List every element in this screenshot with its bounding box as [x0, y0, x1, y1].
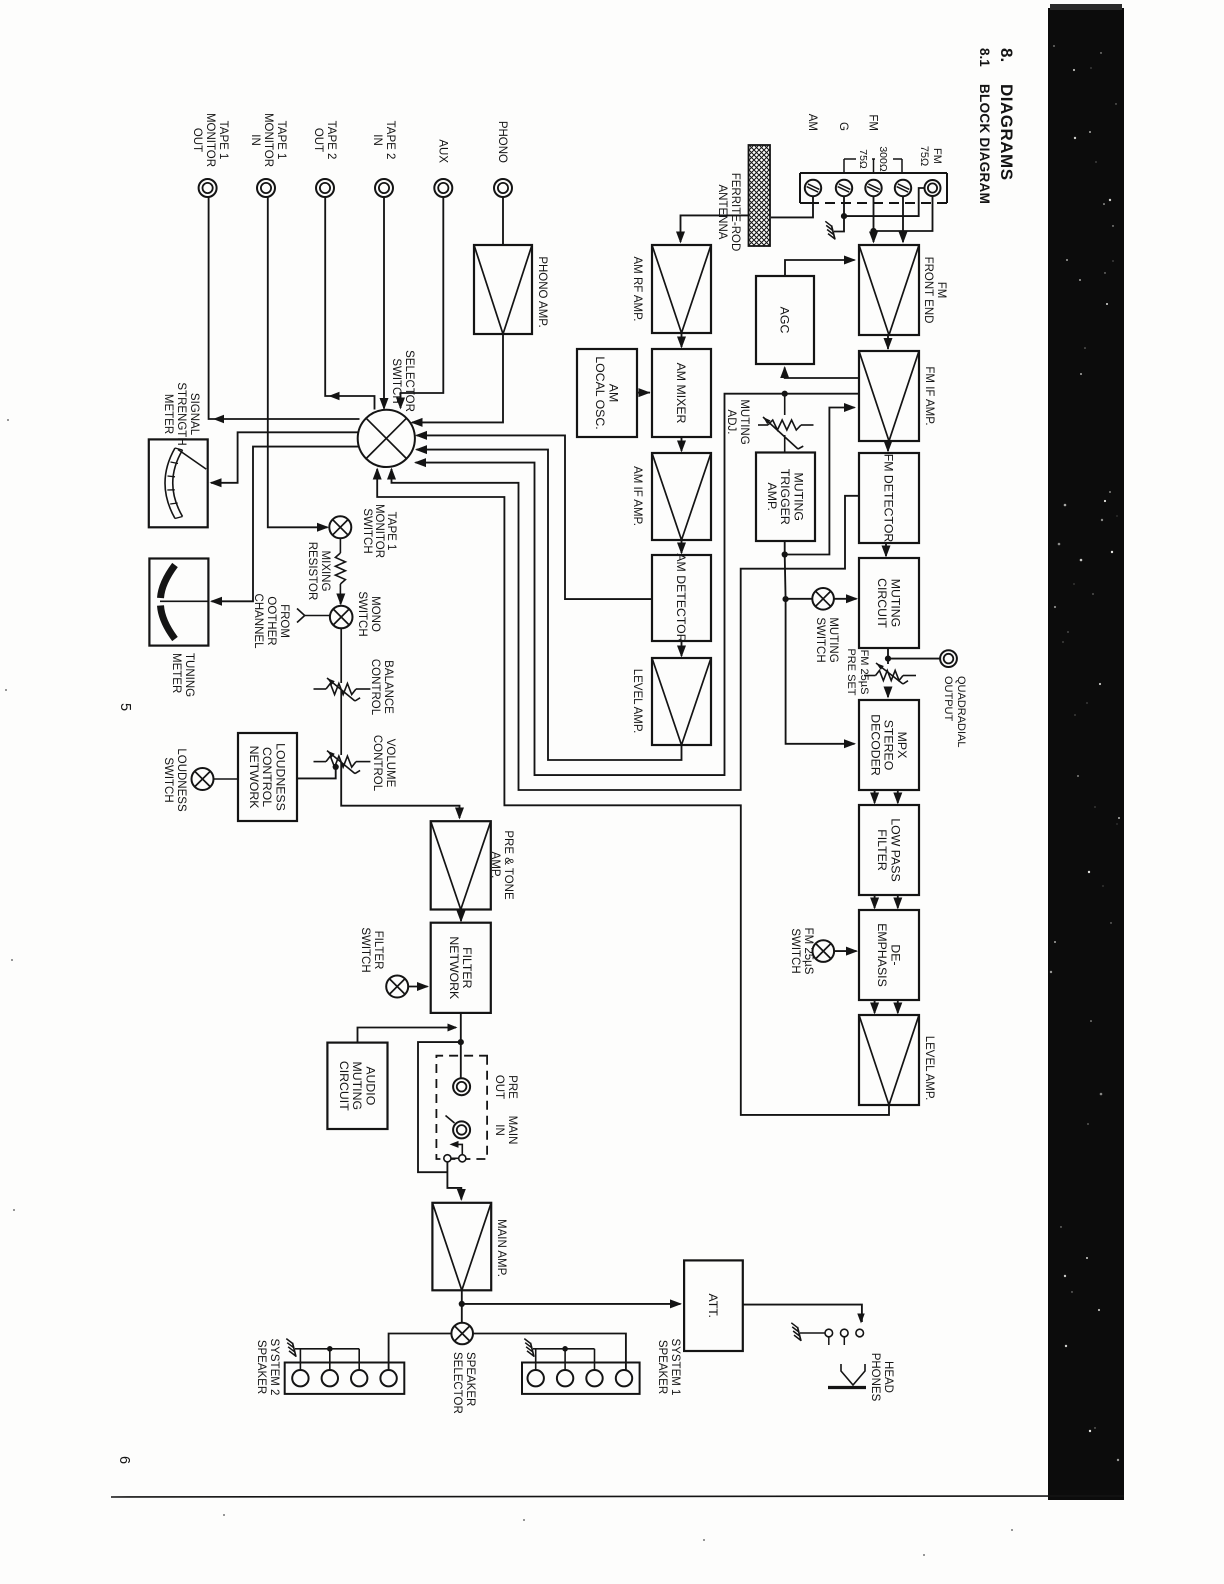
U-link terminal 2: [459, 1155, 466, 1162]
svg-text:ANTENNA: ANTENNA: [716, 185, 728, 240]
terminal G: [836, 180, 852, 196]
svg-text:PRE: PRE: [506, 1075, 518, 1099]
block MPX STEREO DECODER: [859, 700, 919, 790]
wire AM detector to level amp: [681, 641, 683, 656]
block signal strength meter: [149, 439, 208, 527]
wire muting switch to muting circuit: [834, 598, 857, 600]
jack PRE OUT: [453, 1078, 470, 1095]
switch MONO: [330, 606, 353, 629]
wire to ATT: [462, 1303, 681, 1305]
wire de-emphasis to level amp (upper): [897, 1000, 899, 1013]
svg-text:AM IF AMP.: AM IF AMP.: [631, 466, 643, 526]
wire selector to signal strength meter: [211, 432, 358, 483]
jack QUADRADIAL OUTPUT: [940, 650, 957, 667]
svg-text:MONITOR: MONITOR: [373, 504, 385, 558]
ground chassis (antenna): [832, 226, 836, 240]
block ATT: [684, 1260, 743, 1351]
svg-text:SIGNAL: SIGNAL: [188, 393, 200, 436]
svg-text:AGC: AGC: [778, 307, 792, 334]
svg-text:DIAGRAMS: DIAGRAMS: [997, 84, 1016, 181]
svg-text:VOLUME: VOLUME: [384, 739, 396, 788]
svg-text:MUTING: MUTING: [888, 579, 902, 628]
svg-text:75Ω: 75Ω: [857, 149, 869, 169]
wire U-link terminal1 to main amp: [447, 1162, 461, 1200]
block AM DETECTOR: [652, 555, 711, 641]
wire dot1 to dot2: [784, 555, 787, 600]
svg-text:HEAD: HEAD: [882, 1361, 894, 1393]
svg-text:SWITCH: SWITCH: [356, 591, 368, 636]
svg-text:DECODER: DECODER: [868, 714, 882, 776]
wire FM IF amp to AGC: [785, 368, 859, 379]
amp LEVEL AMP (AM): [652, 658, 711, 745]
svg-text:AM: AM: [806, 114, 818, 131]
wire pre tone to filter network: [460, 910, 462, 922]
junction dot quadradial: [885, 656, 891, 662]
junction dot muting bus 2: [783, 596, 789, 602]
specks: [523, 1519, 525, 1521]
wire FM IF amp tap bus to selector: [416, 394, 860, 775]
wire muting circuit to MPX with FM preset: [887, 648, 889, 664]
svg-text:PHONO: PHONO: [496, 121, 508, 163]
wire AM detector direct bus to selector: [417, 435, 653, 599]
jack TAPE 2 IN: [375, 179, 393, 197]
svg-text:LOUDNESS: LOUDNESS: [175, 748, 187, 812]
amp AM IF AMP: [652, 453, 711, 540]
svg-text:SELECTOR: SELECTOR: [403, 350, 415, 412]
svg-text:METER: METER: [170, 653, 182, 693]
wire headphone ground: [800, 1332, 825, 1334]
block FILTER NETWORK: [431, 923, 491, 1013]
antenna terminal strip: [946, 173, 948, 203]
amp PRE & TONE AMP: [431, 821, 491, 909]
ground chassis system 2: [293, 1343, 297, 1357]
svg-text:CIRCUIT: CIRCUIT: [337, 1061, 351, 1111]
wire selector to TAPE 2 OUT: [329, 392, 340, 401]
terminal AM: [805, 180, 821, 196]
svg-text:AUDIO: AUDIO: [363, 1066, 377, 1105]
junction dot system1: [562, 1346, 568, 1352]
svg-text:PRE & TONE: PRE & TONE: [502, 830, 514, 900]
wire phono jack to phono amp: [502, 196, 504, 245]
svg-text:NETWORK: NETWORK: [447, 936, 461, 1000]
svg-text:LEVEL AMP.: LEVEL AMP.: [923, 1036, 935, 1101]
antenna impedance bracket: [893, 158, 902, 160]
svg-text:METER: METER: [162, 394, 174, 434]
wire FM level amp output bus to selector: [377, 469, 889, 1115]
pot BALANCE CONTROL: [326, 684, 356, 695]
wire FM 25uS switch to de-emphasis: [834, 950, 856, 952]
svg-text:MUTING: MUTING: [350, 1062, 364, 1111]
wire FM IF amp to FM detector: [887, 441, 889, 451]
wire FM75 jack shield tap: [844, 188, 924, 216]
svg-text:SYSTEM 2: SYSTEM 2: [268, 1339, 280, 1396]
terminal FM: [865, 180, 881, 196]
junction dot pre out line: [458, 1039, 464, 1045]
wire main amp output: [461, 1290, 463, 1322]
svg-text:EMPHASIS: EMPHASIS: [875, 923, 889, 987]
svg-text:FM 25µS: FM 25µS: [858, 650, 870, 695]
svg-text:LOCAL OSC.: LOCAL OSC.: [593, 356, 607, 429]
svg-text:TUNING: TUNING: [183, 653, 195, 697]
wire speaker selector to system 2: [389, 1334, 452, 1371]
wire TAPE 1 MONITOR IN to monitor switch: [268, 196, 328, 527]
jack FM 75ohm: [925, 180, 941, 196]
jack PHONO: [494, 179, 512, 197]
amp LEVEL AMP (FM): [859, 1015, 919, 1105]
switch TAPE 1 MONITOR: [329, 516, 351, 538]
wire U-link to main in: [452, 1144, 462, 1154]
wire mixing resistor to mono switch: [339, 584, 341, 604]
svg-text:SWITCH: SWITCH: [814, 617, 826, 662]
svg-text:G: G: [837, 122, 849, 131]
wire LPF to de-emphasis (lower): [874, 895, 876, 908]
terminal 300ohm: [895, 180, 911, 196]
block DE-EMPHASIS: [859, 910, 919, 1000]
jack MAIN IN: [453, 1121, 470, 1138]
svg-text:SPEAKER: SPEAKER: [255, 1340, 267, 1394]
svg-text:OUT: OUT: [191, 128, 203, 152]
switch SPEAKER SELECTOR: [451, 1323, 473, 1345]
jack TAPE 1 MONITOR IN: [257, 179, 275, 197]
svg-text:FILTER: FILTER: [875, 829, 889, 871]
pot VOLUME CONTROL: [326, 756, 356, 767]
block MUTING CIRCUIT: [859, 558, 919, 648]
svg-text:LOUDNESS: LOUDNESS: [273, 743, 287, 811]
ground chassis system 1: [531, 1343, 535, 1357]
svg-text:CHANNEL: CHANNEL: [252, 594, 264, 650]
svg-text:FM IF AMP.: FM IF AMP.: [923, 366, 935, 425]
switch LOUDNESS: [192, 768, 214, 790]
switch FM 25uS: [813, 940, 835, 962]
wire AM mixer to AM IF amp: [681, 437, 683, 451]
svg-text:CONTROL: CONTROL: [369, 659, 381, 716]
wire filter network to pre out: [460, 1013, 462, 1078]
wire FM front end to FM IF amp: [887, 335, 889, 349]
jack TAPE 1 MONITOR OUT: [199, 179, 217, 197]
wire audio muting circuit to line: [358, 1028, 457, 1043]
wire de-emphasis to level amp (lower): [874, 1000, 876, 1013]
svg-text:SWITCH: SWITCH: [162, 757, 174, 802]
svg-text:TAPE 1: TAPE 1: [217, 121, 229, 160]
wire 300ohm terminal to FM front end: [902, 196, 904, 242]
svg-text:TAPE 1: TAPE 1: [275, 121, 287, 160]
jack TAPE 2 OUT: [316, 179, 334, 197]
svg-text:OOTHER: OOTHER: [265, 596, 277, 645]
svg-text:MPX: MPX: [895, 732, 909, 759]
block tuning meter: [149, 559, 208, 646]
junction dot FM IF tap: [782, 391, 788, 397]
wire FM terminal to FM front end: [873, 196, 875, 242]
svg-text:PHONO AMP.: PHONO AMP.: [536, 256, 548, 327]
svg-text:AUX: AUX: [436, 139, 448, 163]
svg-text:MONITOR: MONITOR: [262, 113, 274, 167]
dashed rear panel box: [436, 1056, 487, 1159]
wire phono amp to selector: [412, 334, 503, 422]
junction dot speaker line: [459, 1301, 465, 1307]
svg-text:ADJ.: ADJ.: [725, 410, 737, 435]
svg-text:MUTING: MUTING: [791, 473, 805, 522]
wire AM terminal to ferrite rod: [771, 196, 813, 217]
wire AUX to selector: [401, 196, 444, 408]
wire G terminal to ground: [834, 196, 844, 231]
wire TAPE 2 IN to selector: [383, 196, 385, 408]
amp FM IF AMP: [859, 351, 919, 441]
black scan bar: [1048, 8, 1124, 1500]
audio muting junction arrow: [448, 1024, 458, 1032]
svg-text:NETWORK: NETWORK: [247, 746, 261, 810]
svg-text:LEVEL AMP.: LEVEL AMP.: [631, 669, 643, 734]
svg-text:FROM: FROM: [278, 604, 290, 638]
svg-text:BALANCE: BALANCE: [382, 660, 394, 714]
svg-text:FM: FM: [867, 114, 879, 131]
wire muting switch to bus dot: [786, 598, 813, 600]
svg-text:300Ω: 300Ω: [877, 146, 889, 172]
svg-text:MONO: MONO: [369, 596, 381, 632]
wire FM detector to muting circuit: [885, 543, 887, 556]
svg-text:75Ω: 75Ω: [918, 146, 930, 166]
svg-text:8.: 8.: [997, 48, 1016, 62]
svg-text:SPEAKER: SPEAKER: [656, 1340, 668, 1394]
svg-text:SELECTOR: SELECTOR: [451, 1352, 463, 1414]
wire monitor switch to mixing resistor: [339, 538, 341, 553]
wire AM IF amp to AM detector: [681, 540, 683, 553]
U-link terminal 1: [444, 1155, 451, 1162]
wire muting adj branch: [784, 394, 786, 415]
svg-text:CONTROL: CONTROL: [371, 735, 383, 792]
svg-text:IN: IN: [249, 134, 261, 146]
svg-text:MUTING: MUTING: [738, 399, 750, 444]
wire volume tap to loudness network: [298, 767, 336, 779]
amp PHONO AMP: [474, 245, 532, 334]
svg-text:FILTER: FILTER: [460, 947, 474, 989]
svg-text:MIXING: MIXING: [319, 551, 331, 592]
tuning meter needle: [160, 600, 208, 602]
svg-text:STEREO: STEREO: [882, 720, 896, 771]
svg-text:PRE SET: PRE SET: [845, 648, 857, 695]
wire ferrite rod to AM RF amp: [681, 215, 749, 242]
svg-text:FM DETECTOR: FM DETECTOR: [882, 454, 896, 543]
svg-text:RESISTOR: RESISTOR: [306, 542, 318, 601]
svg-text:OUT: OUT: [493, 1075, 505, 1099]
switch FILTER: [386, 976, 408, 998]
wire AGC to FM front end: [785, 260, 855, 276]
wire dot2 to MPX input: [786, 599, 855, 744]
system 2 ground bus: [295, 1348, 359, 1350]
wire filter switch to filter network: [408, 986, 427, 988]
svg-text:BLOCK DIAGRAM: BLOCK DIAGRAM: [977, 84, 992, 204]
svg-text:OUTPUT: OUTPUT: [942, 676, 954, 722]
wire selector to TAPE 1 MONITOR OUT: [213, 415, 224, 424]
svg-text:IN: IN: [371, 134, 383, 146]
wire to quadradial output: [888, 658, 940, 660]
wire ATT to headphone jack: [743, 1305, 862, 1322]
block FM DETECTOR: [859, 453, 919, 543]
amp AM RF AMP: [652, 245, 711, 333]
svg-text:FM 25µS: FM 25µS: [802, 928, 814, 975]
svg-text:MAIN: MAIN: [506, 1116, 518, 1145]
svg-text:SWITCH: SWITCH: [359, 927, 371, 972]
wire dot1 to FM IF amp input: [785, 408, 855, 555]
svg-text:DE-: DE-: [888, 944, 902, 965]
page edge line: [111, 1496, 1124, 1497]
U-link bar: [451, 1157, 459, 1159]
selector switch: [358, 410, 415, 467]
block MUTING TRIGGER AMP: [756, 453, 815, 542]
svg-text:STRENGTH: STRENGTH: [175, 382, 187, 445]
svg-text:SYSTEM 1: SYSTEM 1: [669, 1339, 681, 1396]
wire FM detector direct output bus to selector: [392, 469, 860, 790]
headphone plug: [841, 1364, 865, 1385]
svg-text:AMP.: AMP.: [765, 483, 779, 511]
svg-text:FM: FM: [935, 282, 947, 299]
svg-text:LOW PASS: LOW PASS: [888, 818, 902, 881]
svg-text:AM DETECTOR: AM DETECTOR: [674, 553, 688, 642]
svg-text:QUADRADIAL: QUADRADIAL: [955, 676, 967, 748]
wire mono switch to balance control: [340, 628, 342, 683]
wire AM local osc to AM mixer: [637, 392, 650, 394]
svg-text:8.1: 8.1: [977, 48, 992, 67]
pot MUTING ADJ: [768, 420, 801, 430]
svg-text:FRONT END: FRONT END: [922, 257, 934, 324]
wire FM75 jack center to FM line: [874, 196, 933, 231]
svg-text:FERRITE-ROD: FERRITE-ROD: [729, 173, 741, 252]
wire speaker selector to system 1: [473, 1334, 626, 1371]
svg-text:TAPE 1: TAPE 1: [385, 512, 397, 551]
svg-text:AMP.: AMP.: [489, 852, 501, 879]
svg-text:SWITCH: SWITCH: [361, 508, 373, 553]
system 1 ground bus: [533, 1348, 595, 1350]
amp MAIN AMP: [432, 1203, 491, 1291]
pot FM 25uS PRE SET: [876, 671, 904, 681]
junction dot system2: [327, 1346, 333, 1352]
wire loudness switch to network: [214, 778, 239, 780]
speaker strip SYSTEM 1: [522, 1363, 640, 1394]
junction dot volume tap: [333, 764, 339, 770]
signal meter scale arc: [165, 448, 175, 519]
headphone jack contacts: [856, 1329, 864, 1337]
svg-text:SPEAKER: SPEAKER: [464, 1352, 476, 1406]
wire AM RF amp to AM mixer: [681, 333, 683, 347]
jack AUX: [434, 179, 452, 197]
svg-text:AM MIXER: AM MIXER: [674, 363, 688, 424]
wire selector to tuning meter: [212, 447, 359, 602]
junction dot G line: [841, 213, 847, 219]
svg-text:TRIGGER: TRIGGER: [778, 469, 792, 525]
wire MPX to LPF (upper): [897, 790, 899, 803]
svg-text:CIRCUIT: CIRCUIT: [875, 578, 889, 628]
switch MUTING: [812, 588, 834, 610]
svg-text:IN: IN: [493, 1124, 505, 1136]
svg-text:SWITCH: SWITCH: [789, 928, 801, 973]
wire MPX to LPF (lower): [874, 790, 876, 803]
block LOW PASS FILTER: [859, 805, 919, 895]
wire balance to volume control: [340, 689, 342, 755]
junction dot FM line: [870, 228, 876, 234]
svg-text:AM: AM: [606, 384, 620, 402]
svg-text:FILTER: FILTER: [372, 931, 384, 970]
wire U-link loop from dot: [418, 1042, 461, 1172]
main in contact tick: [446, 1116, 455, 1124]
wire muting trigger amp output: [784, 541, 786, 555]
svg-text:6: 6: [116, 1456, 132, 1464]
ground chassis headphones: [798, 1327, 802, 1341]
wire AM level amp output bus to selector: [417, 450, 682, 760]
amp FM FRONT END: [859, 245, 919, 335]
signal meter needle: [178, 450, 206, 470]
wire LPF to de-emphasis (upper): [897, 895, 899, 908]
block AGC: [756, 276, 814, 364]
svg-text:TAPE 2: TAPE 2: [325, 121, 337, 160]
block LOUDNESS CONTROL NETWORK: [238, 733, 297, 821]
mixing resistor: [335, 553, 345, 584]
svg-text:TAPE 2: TAPE 2: [384, 121, 396, 160]
junction dot muting bus 1: [782, 551, 788, 557]
svg-text:MONITOR: MONITOR: [204, 113, 216, 167]
svg-text:MUTING: MUTING: [827, 617, 839, 662]
svg-text:5: 5: [117, 703, 133, 711]
block AM MIXER: [652, 349, 711, 437]
tuning meter arcs: [161, 565, 176, 598]
svg-text:FM: FM: [931, 148, 943, 164]
svg-text:OUT: OUT: [312, 128, 324, 152]
svg-text:MAIN AMP.: MAIN AMP.: [495, 1219, 507, 1277]
svg-text:ATT.: ATT.: [706, 1294, 720, 1318]
block AM LOCAL OSC: [577, 349, 637, 437]
svg-text:PHONES: PHONES: [869, 1353, 881, 1402]
speaker strip SYSTEM 2: [285, 1363, 405, 1394]
svg-text:CONTROL: CONTROL: [260, 747, 274, 807]
block AUDIO MUTING CIRCUIT: [327, 1043, 387, 1129]
svg-text:AM RF AMP.: AM RF AMP.: [631, 257, 643, 322]
wire from other channel fork: [305, 615, 330, 617]
wire volume control to pre and tone amp: [341, 762, 459, 818]
